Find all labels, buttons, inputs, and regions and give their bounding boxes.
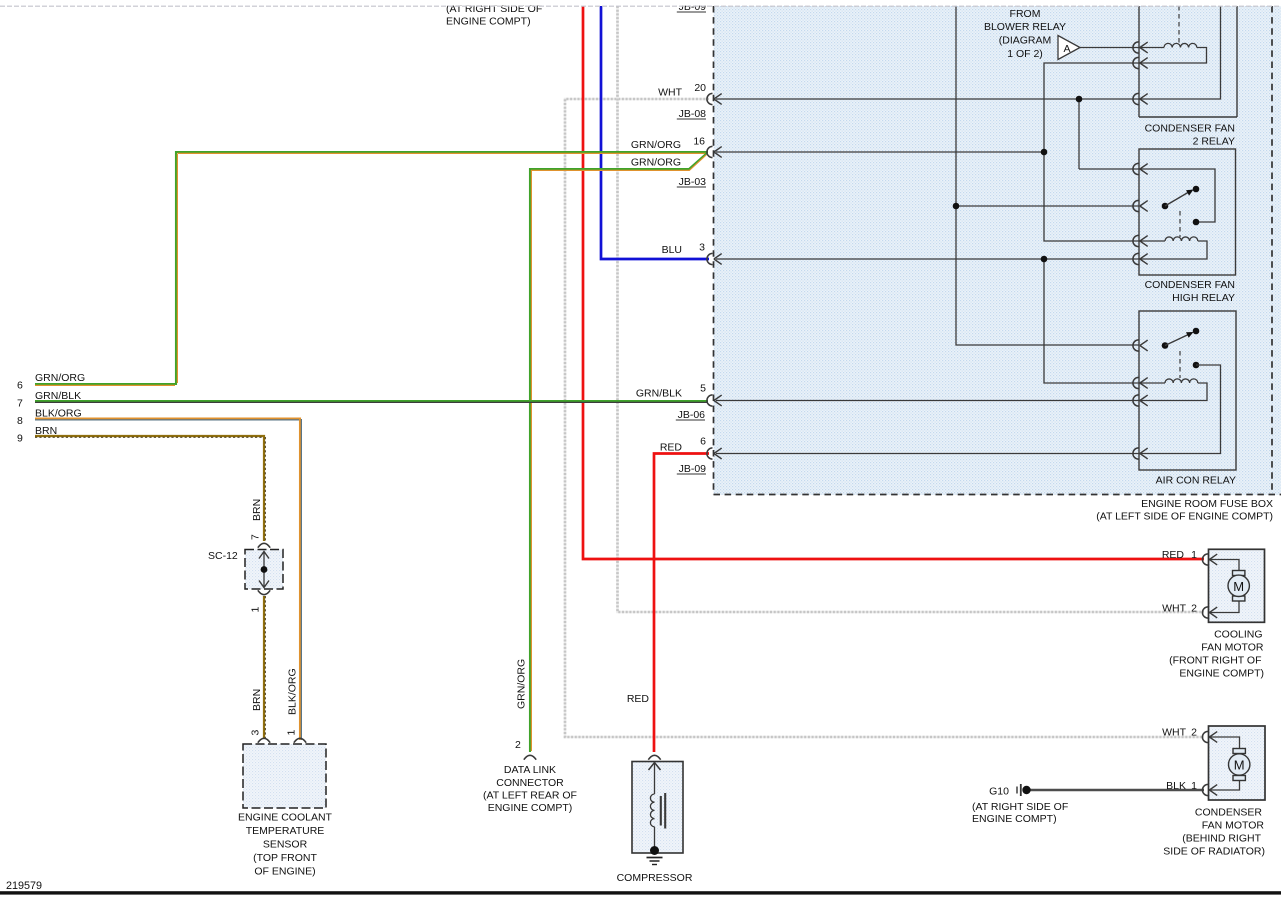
svg-text:SC-12: SC-12	[208, 550, 238, 562]
svg-text:FAN MOTOR: FAN MOTOR	[1202, 820, 1265, 832]
svg-text:ENGINE COOLANT: ENGINE COOLANT	[238, 812, 333, 824]
svg-text:ENGINE COMPT): ENGINE COMPT)	[972, 813, 1057, 825]
svg-text:OF ENGINE): OF ENGINE)	[254, 866, 315, 878]
svg-text:(AT RIGHT SIDE OF: (AT RIGHT SIDE OF	[972, 801, 1068, 813]
svg-text:M: M	[1234, 758, 1245, 773]
svg-text:JB-08: JB-08	[679, 108, 707, 120]
svg-text:(DIAGRAM: (DIAGRAM	[999, 35, 1052, 47]
svg-text:BRN: BRN	[251, 499, 263, 521]
svg-text:BLK/ORG: BLK/ORG	[287, 668, 299, 715]
svg-text:1: 1	[250, 607, 262, 613]
svg-text:GRN/ORG: GRN/ORG	[35, 372, 85, 384]
svg-text:219579: 219579	[6, 880, 42, 892]
svg-text:BRN: BRN	[251, 689, 263, 711]
svg-text:5: 5	[700, 383, 706, 395]
svg-text:JB-09: JB-09	[679, 463, 707, 475]
svg-text:BLU: BLU	[662, 244, 682, 256]
svg-text:2: 2	[515, 739, 521, 751]
svg-text:6: 6	[700, 436, 706, 448]
svg-text:HIGH RELAY: HIGH RELAY	[1172, 292, 1235, 304]
svg-text:CONDENSER FAN: CONDENSER FAN	[1145, 279, 1235, 291]
svg-text:2: 2	[1191, 727, 1197, 739]
svg-text:WHT: WHT	[1162, 603, 1186, 615]
svg-text:(FRONT RIGHT OF: (FRONT RIGHT OF	[1169, 655, 1261, 667]
svg-text:RED: RED	[660, 442, 683, 454]
svg-text:BLK/ORG: BLK/ORG	[35, 408, 82, 420]
svg-text:WHT: WHT	[1162, 727, 1186, 739]
svg-text:3: 3	[250, 730, 262, 736]
svg-text:JB-06: JB-06	[678, 409, 706, 421]
svg-text:AIR CON RELAY: AIR CON RELAY	[1156, 475, 1236, 487]
svg-text:GRN/ORG: GRN/ORG	[516, 659, 528, 709]
svg-text:(TOP FRONT: (TOP FRONT	[253, 852, 317, 864]
svg-text:SENSOR: SENSOR	[263, 839, 308, 851]
svg-text:ENGINE COMPT): ENGINE COMPT)	[1179, 668, 1264, 680]
svg-text:8: 8	[17, 415, 23, 427]
svg-text:G10: G10	[989, 786, 1009, 798]
svg-text:COOLING: COOLING	[1214, 629, 1262, 641]
svg-text:JB-03: JB-03	[679, 176, 707, 188]
svg-text:ENGINE COMPT): ENGINE COMPT)	[446, 16, 531, 28]
svg-text:RED: RED	[1162, 549, 1185, 561]
svg-text:(BEHIND RIGHT: (BEHIND RIGHT	[1182, 833, 1261, 845]
svg-text:GRN/ORG: GRN/ORG	[631, 157, 681, 169]
svg-text:ENGINE ROOM FUSE BOX: ENGINE ROOM FUSE BOX	[1141, 498, 1273, 510]
svg-text:FROM: FROM	[1010, 8, 1041, 20]
svg-text:RED: RED	[627, 693, 650, 705]
svg-text:SIDE OF RADIATOR): SIDE OF RADIATOR)	[1163, 846, 1265, 858]
svg-text:GRN/BLK: GRN/BLK	[35, 390, 81, 402]
svg-text:ENGINE COMPT): ENGINE COMPT)	[488, 802, 573, 814]
svg-text:A: A	[1064, 43, 1071, 55]
svg-text:2: 2	[1191, 603, 1197, 615]
svg-text:16: 16	[693, 136, 705, 148]
svg-text:9: 9	[17, 433, 23, 445]
svg-text:FAN MOTOR: FAN MOTOR	[1201, 642, 1264, 654]
svg-text:(AT LEFT SIDE OF ENGINE COMPT): (AT LEFT SIDE OF ENGINE COMPT)	[1096, 511, 1273, 523]
svg-text:3: 3	[699, 242, 705, 254]
svg-text:WHT: WHT	[658, 87, 682, 99]
svg-text:GRN/BLK: GRN/BLK	[636, 388, 682, 400]
svg-text:COMPRESSOR: COMPRESSOR	[617, 872, 693, 884]
svg-text:M: M	[1233, 579, 1244, 594]
svg-text:6: 6	[17, 380, 23, 392]
svg-text:2 RELAY: 2 RELAY	[1193, 136, 1235, 148]
svg-text:(AT LEFT REAR OF: (AT LEFT REAR OF	[483, 790, 577, 802]
svg-text:TEMPERATURE: TEMPERATURE	[246, 825, 325, 837]
svg-text:20: 20	[694, 82, 706, 94]
svg-text:CONDENSER: CONDENSER	[1195, 807, 1263, 819]
svg-text:1: 1	[1191, 780, 1197, 792]
svg-text:GRN/ORG: GRN/ORG	[631, 139, 681, 151]
svg-text:BLOWER RELAY: BLOWER RELAY	[984, 21, 1066, 33]
svg-text:1: 1	[1191, 549, 1197, 561]
svg-text:1 OF 2): 1 OF 2)	[1007, 48, 1043, 60]
svg-text:7: 7	[17, 398, 23, 410]
svg-text:CONNECTOR: CONNECTOR	[496, 777, 564, 789]
svg-text:CONDENSER FAN: CONDENSER FAN	[1145, 123, 1235, 135]
svg-text:DATA LINK: DATA LINK	[504, 764, 556, 776]
svg-text:BRN: BRN	[35, 425, 57, 437]
svg-text:1: 1	[286, 730, 298, 736]
svg-text:7: 7	[250, 534, 262, 540]
svg-text:BLK: BLK	[1166, 780, 1186, 792]
